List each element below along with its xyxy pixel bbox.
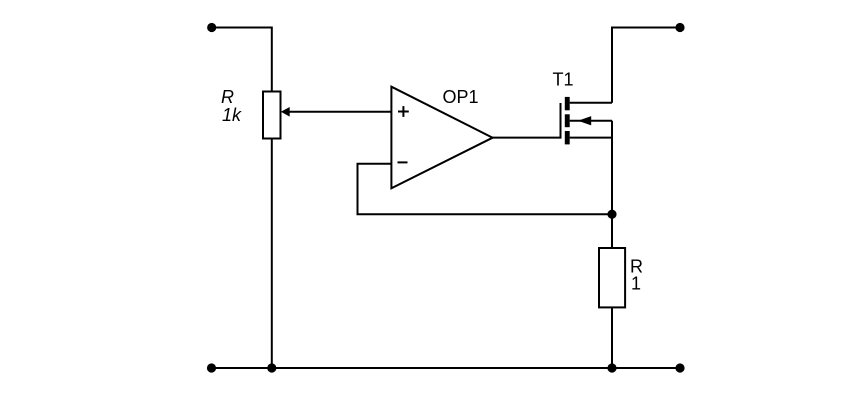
wire pot bottom to rail [271,139,273,369]
op-amp + input symbol [398,106,409,117]
terminal dot top-right [675,23,684,32]
svg-text:T1: T1 [553,70,574,90]
transistor T1 body lead with arrow [570,116,612,125]
wire source down to R1 [611,121,613,248]
svg-text:OP1: OP1 [443,87,479,107]
label R 1k [221,87,242,125]
label R 1 [630,257,643,294]
potentiometer R body [263,92,281,139]
svg-text:R: R [221,87,234,107]
terminal dot bottom-right [675,363,684,372]
svg-text:1k: 1k [222,105,242,125]
bottom rail wire [212,367,681,369]
transistor T1 source lead [570,137,612,139]
transistor T1 channel bars [565,97,570,144]
wire top-left rail [212,28,272,92]
wire wiper to op-amp +input [289,111,392,113]
wire top-right rail to drain [612,28,680,103]
op-amp - input symbol [398,161,408,163]
wire feedback from - input to source node [358,164,613,215]
potentiometer R wiper arrow [281,107,290,117]
transistor T1 gate line [560,103,562,139]
transistor T1 drain lead [570,102,612,104]
terminal dot bottom-left [207,363,216,372]
junction dot R1-rail [607,363,616,372]
wire R1 bottom to rail [611,307,613,368]
wire op-amp output to gate [493,137,561,139]
terminal dot top-left [207,23,216,32]
svg-text:1: 1 [631,273,641,293]
op-amp OP1 body [391,87,492,189]
node junction dot feedback [607,210,616,219]
junction dot pot-rail [267,363,276,372]
resistor R1 body [599,248,625,307]
